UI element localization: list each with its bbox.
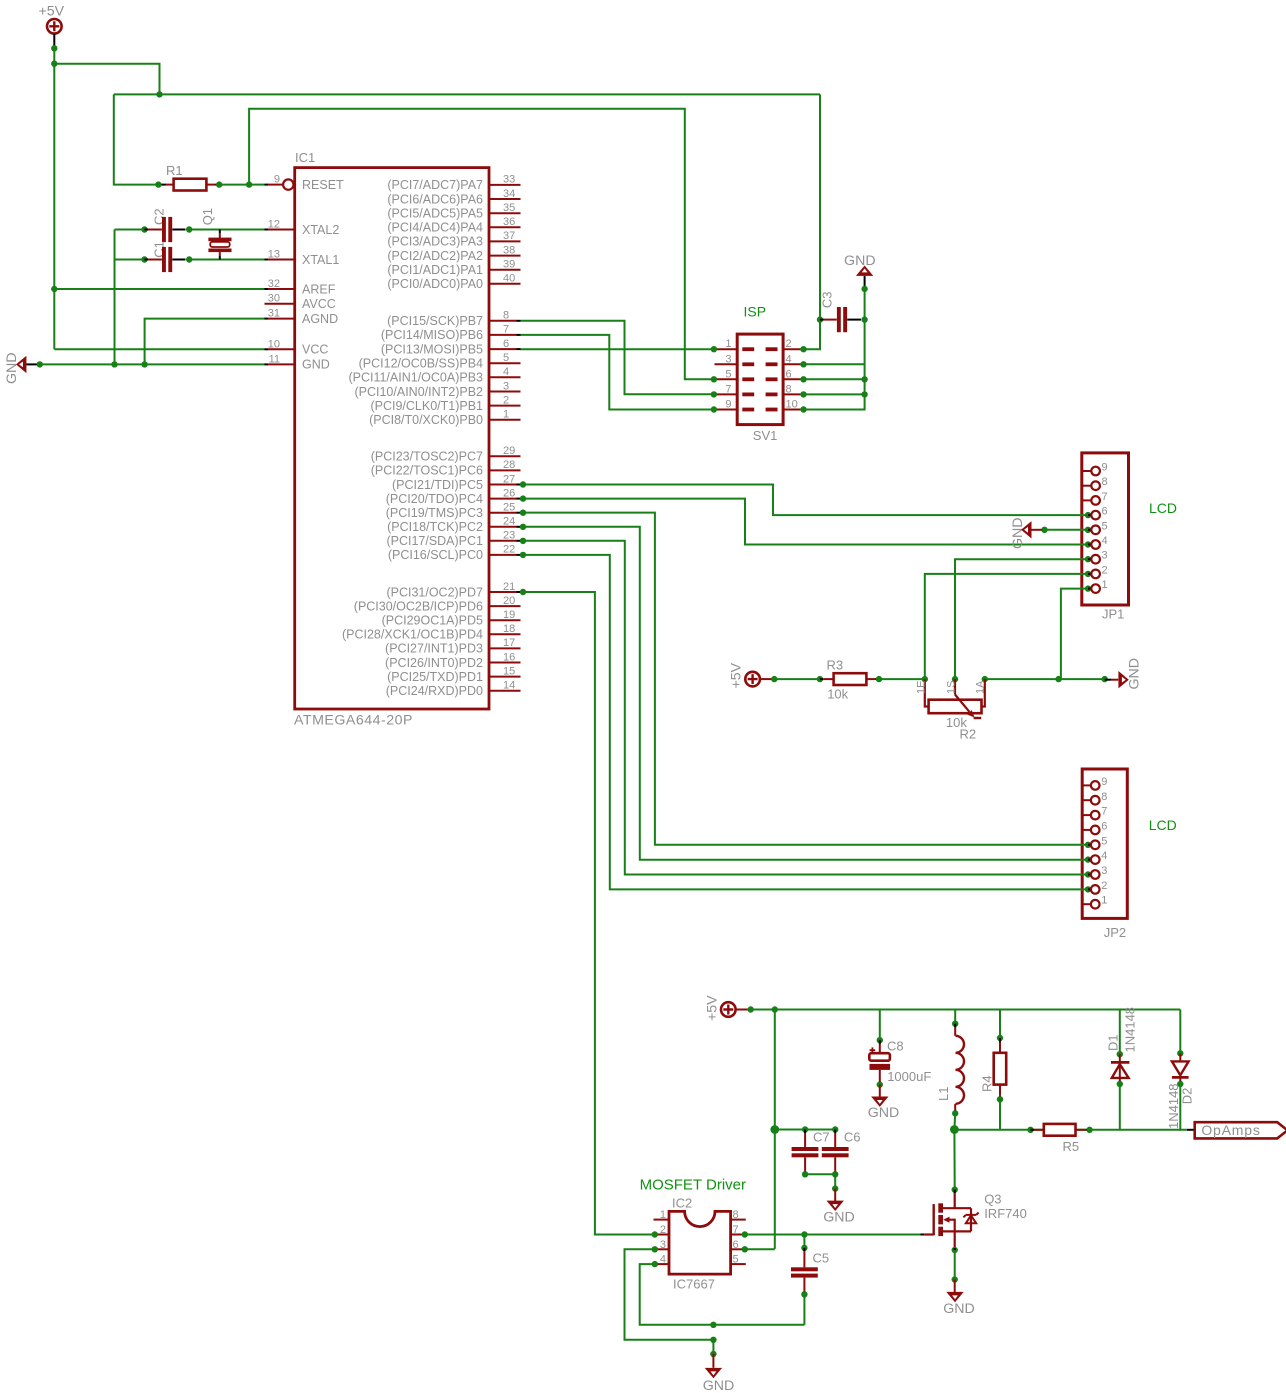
svg-text:R5: R5 — [1063, 1139, 1080, 1154]
connector JP2 LCD — [1082, 769, 1127, 918]
pin C6 bottom lead — [834, 1157, 836, 1171]
wire +5V top rail bottom section — [751, 1009, 1181, 1011]
svg-text:(PCI14/MISO)PB6: (PCI14/MISO)PB6 — [381, 328, 483, 342]
svg-text:20: 20 — [503, 595, 515, 607]
wire +5V down to R1 — [114, 94, 159, 184]
svg-text:(PCI4/ADC4)PA4: (PCI4/ADC4)PA4 — [387, 221, 483, 235]
ISP pin 1 — [714, 348, 717, 350]
pin tip IC1 pin 9 — [265, 184, 269, 186]
JP2 pad 9 — [1082, 784, 1091, 786]
wire C7 C6 bottoms — [805, 1173, 835, 1175]
svg-text:L1: L1 — [936, 1087, 951, 1101]
wire RESET to ISP pin 5 — [249, 109, 714, 380]
wire RESET to IC1 pin 9 — [249, 184, 264, 186]
junction C7 top — [802, 1126, 808, 1132]
svg-text:GND: GND — [943, 1301, 975, 1317]
wire AGND — [145, 319, 265, 365]
svg-text:14: 14 — [503, 680, 515, 692]
pin tip R5 right — [1086, 1129, 1090, 1131]
svg-text:31: 31 — [268, 308, 280, 320]
pin 36 (PCI4/ADC4)PA4 — [489, 226, 521, 228]
junction C8 bottom — [877, 1081, 883, 1087]
wire PD7 to IC2 pin 2 — [521, 592, 655, 1235]
junction R1 right — [216, 181, 222, 187]
wire caps to GND vertical — [114, 230, 116, 365]
svg-text:(PCI11/AIN1/OC0A)PB3: (PCI11/AIN1/OC0A)PB3 — [348, 371, 483, 385]
wire PC1 to JP2 pin 3 — [521, 541, 1089, 875]
wire JP1 pin 1 to GND rail — [1061, 589, 1088, 680]
svg-text:VCC: VCC — [302, 343, 328, 357]
IC2 pin 4 — [655, 1263, 658, 1265]
resistor R4 — [994, 1053, 1007, 1085]
svg-text:D1: D1 — [1106, 1034, 1121, 1051]
svg-text:JP1: JP1 — [1102, 607, 1124, 622]
svg-text:26: 26 — [503, 487, 515, 499]
svg-text:38: 38 — [503, 244, 515, 256]
pin tip C5 top — [803, 1248, 805, 1252]
pin C5 top lead — [803, 1251, 805, 1267]
pin tip R4 bottom — [999, 1096, 1001, 1100]
svg-text:AGND: AGND — [302, 312, 338, 326]
ground symbol C6 — [827, 1201, 844, 1211]
svg-text:10: 10 — [268, 338, 280, 350]
wire output rail — [954, 1129, 1180, 1131]
ground symbol C8 — [871, 1097, 888, 1107]
svg-text:2: 2 — [503, 394, 509, 406]
IC2 pin 1 — [654, 1219, 670, 1221]
svg-text:8: 8 — [1102, 476, 1108, 488]
pin tip C2 left — [145, 229, 149, 231]
svg-text:(PCI24/RXD)PD0: (PCI24/RXD)PD0 — [386, 684, 483, 698]
pin C7 bottom lead — [804, 1157, 806, 1171]
ground symbol at JP1 — [1021, 521, 1031, 538]
pin tip D2 bottom — [1179, 1081, 1181, 1085]
svg-text:16: 16 — [503, 651, 515, 663]
pin C2 left lead — [148, 229, 162, 231]
svg-text:(PCI28/XCK1/OC1B)PD4: (PCI28/XCK1/OC1B)PD4 — [342, 628, 483, 642]
svg-text:1000uF: 1000uF — [887, 1069, 931, 1084]
junction GND vertical pin6 — [861, 376, 867, 382]
svg-text:7: 7 — [503, 324, 509, 336]
pin tip C1 left — [145, 259, 149, 261]
pin 21 (PCI31/OC2)PD7 — [489, 591, 517, 593]
wire rail to L1 — [954, 1010, 956, 1024]
svg-text:GND: GND — [4, 352, 20, 384]
junction D1 cathode — [1117, 1051, 1123, 1057]
svg-text:C6: C6 — [844, 1130, 861, 1145]
pin Q3 gate lead — [924, 1233, 933, 1235]
resistor R1 — [174, 179, 207, 191]
svg-text:8: 8 — [733, 1209, 739, 1221]
ground symbol above C3 — [856, 266, 873, 276]
svg-text:+5V: +5V — [39, 4, 65, 20]
svg-text:LCD: LCD — [1149, 817, 1177, 833]
wire PC3 to JP2 pin 5 — [521, 513, 1089, 845]
ISP pin 5 — [714, 378, 717, 380]
svg-text:10: 10 — [786, 399, 798, 411]
svg-text:SV1: SV1 — [753, 428, 778, 443]
pin D1 cathode lead — [1119, 1054, 1121, 1062]
svg-text:1N4148: 1N4148 — [1123, 1007, 1138, 1053]
ISP pin 3 — [715, 363, 738, 365]
pin 25 (PCI19/TMS)PC3 — [489, 512, 517, 514]
junction +5V pin — [51, 45, 57, 51]
svg-text:(PCI13/MOSI)PB5: (PCI13/MOSI)PB5 — [381, 342, 483, 356]
svg-text:GND: GND — [1010, 517, 1026, 549]
pin 40 (PCI0/ADC0)PA0 — [489, 283, 521, 285]
JP1 pad 4 — [1085, 541, 1091, 547]
wire GND stem — [712, 1340, 714, 1354]
pin tip D1 anode — [1119, 1081, 1121, 1085]
svg-text:11: 11 — [269, 353, 280, 365]
pin tip R3 left — [820, 678, 823, 680]
pin 7 (PCI14/MISO)PB6 — [489, 334, 517, 336]
svg-text:(PCI25/TXD)PD1: (PCI25/TXD)PD1 — [387, 670, 483, 684]
wire XTAL1 to C1 — [115, 259, 145, 261]
svg-text:C7: C7 — [813, 1130, 830, 1145]
Q3 channel bars — [938, 1203, 943, 1212]
wire rail to C8 — [879, 1010, 881, 1041]
junction C1 right — [186, 256, 192, 262]
power +5V symbol top-left — [47, 19, 62, 34]
pin tip C7 bottom — [804, 1171, 806, 1175]
junction R2 1E — [922, 676, 928, 682]
svg-text:(PCI5/ADC5)PA5: (PCI5/ADC5)PA5 — [387, 207, 483, 221]
svg-text:7: 7 — [1102, 491, 1108, 503]
JP1 pad 1 — [1085, 585, 1091, 591]
wire PB6/MISO to ISP pin 9 — [521, 335, 714, 410]
svg-text:8: 8 — [1101, 791, 1107, 803]
pin stub +5V — [53, 34, 55, 49]
junction GND pin — [37, 361, 43, 367]
wire VCC rail y94 — [114, 93, 820, 95]
wire rail to R4 — [999, 1010, 1001, 1039]
JP1 pad 5 — [1085, 527, 1091, 533]
svg-text:13: 13 — [268, 249, 280, 261]
pin 24 (PCI18/TCK)PC2 — [489, 526, 517, 528]
svg-text:R4: R4 — [980, 1075, 995, 1092]
pin C1 right lead — [172, 259, 185, 261]
pin R4 top lead — [999, 1042, 1001, 1053]
pin C3 left lead — [824, 319, 837, 321]
pin tip C8 bottom — [879, 1081, 881, 1085]
svg-text:(PCI6/ADC6)PA6: (PCI6/ADC6)PA6 — [387, 192, 483, 206]
pin stub GND JP1 — [1032, 529, 1042, 531]
pin 37 (PCI3/ADC3)PA3 — [489, 240, 521, 242]
svg-text:XTAL1: XTAL1 — [302, 253, 339, 267]
svg-text:4: 4 — [1102, 535, 1108, 547]
svg-text:(PCI17/SDA)PC1: (PCI17/SDA)PC1 — [386, 534, 483, 548]
pin 30 AVCC — [265, 303, 295, 305]
junction at pin 21 — [520, 589, 526, 595]
wire JP1 pin 2 to R2 1E — [925, 574, 1088, 679]
junction D2 bottom — [1177, 1081, 1183, 1087]
pin 4 (PCI11/AIN1/OC0A)PB3 — [489, 376, 521, 378]
svg-text:28: 28 — [503, 459, 515, 471]
diode D2 1N4148 — [1172, 1061, 1189, 1075]
wire ISP pin 10 / GND vertical — [804, 289, 865, 410]
pin 19 (PCI29OC1A)PD5 — [489, 619, 521, 621]
junction R5 left — [1027, 1127, 1033, 1133]
wire C6 to GND — [834, 1174, 836, 1188]
junction C6 bottom — [832, 1171, 838, 1177]
junction C6 top — [832, 1126, 838, 1132]
pin tip +5V bottom — [747, 1009, 751, 1011]
pin stub GND right — [1111, 679, 1118, 681]
pin R3 right lead — [866, 678, 875, 680]
wire PB5/MOSI to ISP pin 1 — [521, 348, 714, 350]
pin stub GND Q3 — [954, 1280, 956, 1294]
wire R4 to output rail — [999, 1099, 1001, 1130]
svg-text:4: 4 — [503, 366, 509, 378]
pin tip GND JP1 — [1041, 529, 1045, 531]
svg-text:JP2: JP2 — [1104, 925, 1126, 940]
wire ISP pin 6 to GND — [804, 378, 865, 380]
svg-text:9: 9 — [725, 399, 731, 411]
resistor R3 — [834, 673, 867, 685]
pin 32 AREF — [265, 288, 269, 290]
pin stub +5V bottom — [736, 1009, 747, 1011]
Q3 drain path — [943, 1191, 971, 1208]
potentiometer R2 — [925, 679, 929, 706]
junction R4 bottom — [997, 1096, 1003, 1102]
svg-text:(PCI12/OC0B/SS)PB4: (PCI12/OC0B/SS)PB4 — [359, 357, 483, 371]
wire AREF — [54, 288, 264, 290]
junction at pin 24 — [520, 524, 526, 530]
junction AREF on +5V rail — [51, 286, 57, 292]
crystal Q1 — [208, 238, 231, 242]
svg-text:1: 1 — [725, 338, 731, 350]
svg-text:(PCI31/OC2)PD7: (PCI31/OC2)PD7 — [386, 585, 483, 599]
svg-text:9: 9 — [1101, 776, 1107, 788]
wire R3 to R2 1E — [879, 678, 925, 680]
microcontroller IC1 ATMEGA644-20P — [295, 168, 489, 709]
wire IC2 pin 4 to GND — [640, 1264, 714, 1325]
pin 35 (PCI5/ADC5)PA5 — [489, 212, 521, 214]
wire R2 1A to GND — [985, 678, 1105, 680]
svg-text:9: 9 — [1102, 462, 1108, 474]
svg-text:37: 37 — [503, 230, 515, 242]
Q3 source path — [943, 1231, 971, 1248]
junction drain node — [950, 1125, 959, 1134]
svg-text:R2: R2 — [960, 726, 977, 741]
pin C8 bottom lead — [879, 1070, 881, 1081]
junction Q3 drain — [952, 1186, 958, 1192]
svg-text:35: 35 — [503, 202, 515, 214]
svg-text:(PCI29OC1A)PD5: (PCI29OC1A)PD5 — [382, 614, 483, 628]
pin stub +5V mid — [760, 678, 771, 680]
capacitor C2 — [162, 217, 166, 242]
pin R5 right lead — [1076, 1129, 1087, 1131]
junction at pin 22 — [520, 552, 526, 558]
wire IC2 pin 6 to +5V vertical — [745, 1248, 775, 1250]
wire PC4 to JP1 pin 4 — [521, 499, 1089, 545]
svg-text:(PCI10/AIN0/INT2)PB2: (PCI10/AIN0/INT2)PB2 — [354, 385, 483, 399]
wire C1 to XTAL1 pin — [189, 259, 264, 261]
svg-text:24: 24 — [503, 516, 515, 528]
pin 15 (PCI25/TXD)PD1 — [489, 676, 521, 678]
pin tip C8 top — [879, 1040, 881, 1044]
svg-text:GND: GND — [844, 253, 876, 269]
junction JP1 pin1 on GND rail — [1055, 676, 1061, 682]
svg-text:6: 6 — [503, 338, 509, 350]
svg-text:5: 5 — [733, 1254, 739, 1266]
svg-text:3: 3 — [1101, 865, 1107, 877]
junction driver supply node — [770, 1125, 779, 1134]
junction GND JP1 — [1041, 527, 1047, 533]
junction C3 left — [817, 316, 823, 322]
pin tip C6 top — [834, 1130, 836, 1134]
pin tip +5V mid — [771, 678, 774, 680]
pin C8 top lead — [879, 1044, 881, 1053]
wire JP1 pin 3 to R2 wiper — [955, 559, 1088, 679]
junction R2 1A — [982, 676, 988, 682]
svg-text:(PCI2/ADC2)PA2: (PCI2/ADC2)PA2 — [387, 249, 483, 263]
capacitor C8 polarized — [870, 1047, 876, 1053]
resistor R5 — [1044, 1124, 1076, 1136]
JP2 pad 3 — [1085, 871, 1091, 877]
pin tip GND right — [1105, 679, 1111, 681]
junction +5V bottom — [748, 1006, 754, 1012]
svg-text:3: 3 — [1102, 550, 1108, 562]
svg-text:(PCI20/TDO)PC4: (PCI20/TDO)PC4 — [386, 492, 483, 506]
pin 20 (PCI30/OC2B/ICP)PD6 — [489, 605, 521, 607]
svg-text:(PCI1/ADC1)PA1: (PCI1/ADC1)PA1 — [387, 263, 483, 277]
pin 18 (PCI28/XCK1/OC1B)PD4 — [489, 633, 521, 635]
pin tip C6 bottom — [834, 1171, 836, 1175]
wire rail to D1 — [1119, 1010, 1121, 1055]
pin tip OpAmps flag — [1187, 1129, 1195, 1131]
svg-text:D2: D2 — [1180, 1088, 1195, 1105]
pin C5 bottom lead — [803, 1278, 805, 1291]
pin D2 lead bottom — [1179, 1077, 1181, 1080]
junction caps-GND — [111, 361, 117, 367]
junction R3 right — [876, 676, 882, 682]
ISP pin 10 — [766, 408, 778, 412]
wire ISP pin 2 to +5V/C3 — [804, 320, 821, 350]
pin 33 (PCI7/ADC7)PA7 — [489, 184, 521, 186]
wire C5 bottom to GND node — [803, 1294, 805, 1325]
svg-text:6: 6 — [786, 368, 792, 380]
ISP pin 6 — [766, 377, 778, 381]
wire IC2 pin 7 to Q3 gate — [745, 1234, 921, 1236]
pin C1 left lead — [148, 259, 162, 261]
junction C5 pin top — [801, 1245, 807, 1251]
junction VCC rail — [156, 91, 162, 97]
pin tip R1 right — [216, 184, 220, 186]
junction at pin 26 — [520, 495, 526, 501]
svg-text:OpAmps: OpAmps — [1201, 1122, 1260, 1138]
junction L1 top — [952, 1021, 958, 1027]
svg-text:(PCI23/TOSC2)PC7: (PCI23/TOSC2)PC7 — [371, 450, 483, 464]
svg-text:10k: 10k — [827, 686, 848, 701]
wire VCC — [54, 348, 264, 350]
svg-text:XTAL2: XTAL2 — [302, 223, 339, 237]
pin L1 top lead — [954, 1027, 956, 1036]
pin R2 1A lead — [982, 679, 985, 706]
pin 10 VCC — [265, 348, 269, 350]
wire GND to JP1 pin 5 — [1045, 529, 1089, 531]
svg-text:9: 9 — [274, 174, 280, 186]
ISP pin 7 — [714, 393, 717, 395]
junction +5V branch — [51, 61, 57, 67]
svg-text:(PCI0/ADC0)PA0: (PCI0/ADC0)PA0 — [387, 277, 483, 291]
pin 11 GND — [265, 363, 269, 365]
wire GND rail — [40, 363, 265, 365]
pin R3 left lead — [823, 678, 833, 680]
capacitor C3 — [837, 307, 841, 332]
wire PC0 to JP2 pin 2 — [521, 555, 1089, 890]
svg-text:5: 5 — [1102, 520, 1108, 532]
svg-text:7: 7 — [1101, 806, 1107, 818]
svg-text:3: 3 — [503, 380, 509, 392]
svg-text:(PCI15/SCK)PB7: (PCI15/SCK)PB7 — [387, 314, 483, 328]
pin 28 (PCI22/TOSC1)PC6 — [489, 469, 521, 471]
wire +5V vertical rail — [53, 48, 55, 349]
junction GND C6 — [832, 1185, 838, 1191]
svg-text:30: 30 — [268, 293, 280, 305]
pin tip C3 left — [820, 319, 824, 321]
wire L1 to drain node — [953, 1113, 956, 1129]
pin tip L1 top — [954, 1024, 956, 1027]
svg-text:3: 3 — [660, 1239, 666, 1251]
connector SV1 ISP header — [737, 334, 783, 425]
svg-text:39: 39 — [503, 259, 515, 271]
ground symbol right of R2 — [1118, 671, 1128, 688]
wire drain node to Q3 — [953, 1130, 955, 1190]
ISP pin 2 — [766, 347, 778, 351]
IC2 pin 7 — [731, 1234, 742, 1236]
junction GND stem upper — [710, 1322, 716, 1328]
svg-text:(PCI19/TMS)PC3: (PCI19/TMS)PC3 — [386, 506, 483, 520]
svg-text:1A: 1A — [975, 680, 987, 694]
pin 38 (PCI2/ADC2)PA2 — [489, 255, 521, 257]
svg-text:2: 2 — [1101, 880, 1107, 892]
junction D1 anode — [1117, 1081, 1123, 1087]
wire PB7/SCK to ISP pin 7 — [521, 321, 714, 395]
svg-text:6: 6 — [1102, 506, 1108, 518]
svg-text:(PCI16/SCL)PC0: (PCI16/SCL)PC0 — [388, 548, 483, 562]
pin tip R3 right — [876, 678, 880, 680]
pin 3 (PCI10/AIN0/INT2)PB2 — [489, 391, 521, 393]
junction C3 right — [861, 316, 867, 322]
wire driver supply to C7 C6 — [775, 1129, 835, 1131]
wire XTAL2 to C2 — [115, 229, 145, 231]
svg-text:ISP: ISP — [744, 304, 767, 320]
ground symbol driver — [705, 1368, 722, 1378]
pin 1 (PCI8/T0/XCK0)PB0 — [489, 419, 521, 421]
diode D1 1N4148 — [1111, 1061, 1129, 1064]
pin 26 (PCI20/TDO)PC4 — [489, 498, 517, 500]
svg-text:36: 36 — [503, 216, 515, 228]
svg-text:GND: GND — [703, 1378, 735, 1393]
net flag OpAmps — [1195, 1122, 1286, 1138]
junction R5 right — [1086, 1127, 1092, 1133]
wire C2 to XTAL2 pin — [189, 229, 264, 231]
svg-text:5: 5 — [503, 352, 509, 364]
wire +5V to VCC distribution — [54, 64, 159, 95]
pin C3 right lead — [847, 319, 861, 321]
junction C2 left — [141, 226, 147, 232]
pin 9 RESET inverting circle — [283, 179, 293, 189]
wire +5V vertical to IC2 pin 6 — [774, 1010, 776, 1249]
JP1 pad 9 — [1082, 470, 1092, 472]
svg-text:C8: C8 — [887, 1039, 904, 1054]
svg-text:1E: 1E — [915, 681, 927, 694]
svg-text:1: 1 — [503, 409, 509, 421]
junction rail to driver supply — [772, 1006, 778, 1012]
svg-text:32: 32 — [268, 278, 280, 290]
